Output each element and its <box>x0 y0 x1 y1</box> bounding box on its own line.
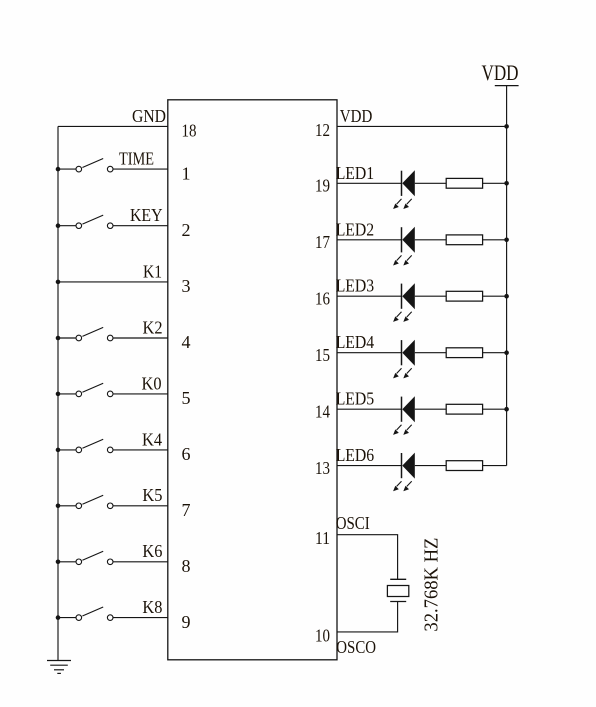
wire: rail to pin 18 (GND) <box>58 125 168 127</box>
svg-text:3: 3 <box>182 276 191 296</box>
switch SK4 blade <box>82 439 103 448</box>
junction dot on left rail <box>56 615 61 620</box>
crystal Y1 body <box>387 586 408 597</box>
switch SK5 contact circle left <box>76 503 82 509</box>
wire: LED D3 to resistor R3 <box>415 295 446 297</box>
junction dot on left rail <box>56 223 61 228</box>
junction dot on left rail <box>56 336 61 341</box>
LED D2 triangle <box>402 227 415 253</box>
LED D1 triangle <box>402 170 415 196</box>
wire: LED D6 to resistor R6 <box>415 465 446 467</box>
switch SK5 blade <box>82 495 103 504</box>
switch SK6 contact circle left <box>76 559 82 565</box>
junction dot on VDD rail <box>504 294 509 299</box>
svg-text:5: 5 <box>182 388 191 408</box>
wire: pin 15 to LED D4 <box>337 352 402 354</box>
svg-text:14: 14 <box>315 402 330 422</box>
switch SK0 blade <box>82 383 103 392</box>
switch SK8 contact circle left <box>76 615 82 621</box>
svg-text:4: 4 <box>182 332 191 352</box>
svg-text:6: 6 <box>182 444 191 464</box>
svg-text:KEY: KEY <box>130 205 163 225</box>
LED D5 triangle <box>402 396 415 422</box>
wire: crystal to pin 10 <box>337 602 398 632</box>
svg-text:VDD: VDD <box>340 106 373 126</box>
svg-text:8: 8 <box>182 556 191 576</box>
svg-text:LED3: LED3 <box>336 276 375 296</box>
svg-text:LED6: LED6 <box>336 445 375 465</box>
svg-text:VDD: VDD <box>482 60 519 85</box>
switch STIME contact circle left <box>76 166 82 172</box>
LED D2 emission arrow 2 <box>407 255 412 260</box>
wire: resistor R5 to VDD rail <box>483 408 507 410</box>
svg-text:OSCI: OSCI <box>336 513 370 533</box>
LED D2 cathode bar <box>401 227 403 252</box>
wire: switch K2 to pin 4 <box>113 337 168 339</box>
svg-text:K4: K4 <box>142 429 162 449</box>
LED D4 triangle <box>402 340 415 366</box>
LED D3 cathode bar <box>401 284 403 309</box>
wire: rail to switch TIME <box>58 168 76 170</box>
svg-text:11: 11 <box>315 528 330 548</box>
svg-text:LED2: LED2 <box>336 219 375 239</box>
svg-text:LED1: LED1 <box>336 163 375 183</box>
svg-text:2: 2 <box>182 220 191 240</box>
svg-text:LED4: LED4 <box>336 332 375 352</box>
crystal Y1 top plate <box>390 578 406 580</box>
junction dot on left rail <box>56 504 61 509</box>
junction dot on VDD rail <box>504 181 509 186</box>
svg-text:17: 17 <box>315 232 330 252</box>
resistor R6 <box>446 461 482 471</box>
LED D4 cathode bar <box>401 340 403 365</box>
LED D6 cathode bar <box>401 453 403 478</box>
wire: switch TIME to pin 1 <box>113 168 168 170</box>
switch STIME contact circle right <box>107 166 113 172</box>
svg-text:9: 9 <box>182 612 191 632</box>
IC U1 body <box>168 100 337 660</box>
LED D3 triangle <box>402 283 415 309</box>
LED D6 emission arrow 2 <box>407 481 412 486</box>
LED D5 cathode bar <box>401 397 403 422</box>
wire: switch K6 to pin 8 <box>113 561 168 563</box>
LED D2 emission arrow 1 <box>397 255 402 260</box>
switch SK0 contact circle left <box>76 391 82 397</box>
ground symbol <box>47 660 71 662</box>
wire: switch K8 to pin 9 <box>113 617 168 619</box>
svg-text:K8: K8 <box>142 597 162 617</box>
resistor R1 <box>446 178 482 188</box>
wire: rail to switch K0 <box>58 393 76 395</box>
LED D1 emission arrow 1 <box>397 199 402 204</box>
switch SKEY contact circle left <box>76 223 82 229</box>
wire: rail to switch K5 <box>58 505 76 507</box>
crystal Y1 bottom plate <box>390 601 406 603</box>
junction dot on VDD rail <box>504 407 509 412</box>
wire: resistor R6 to VDD rail <box>483 465 507 467</box>
LED D6 triangle <box>402 453 415 479</box>
svg-text:15: 15 <box>315 345 330 365</box>
svg-text:18: 18 <box>182 121 197 141</box>
switch SK6 blade <box>82 551 103 560</box>
switch SK0 contact circle right <box>107 391 113 397</box>
LED D4 emission arrow 2 <box>407 368 412 373</box>
junction dot on left rail <box>56 560 61 565</box>
svg-text:16: 16 <box>315 289 330 309</box>
wire: LED D5 to resistor R5 <box>415 408 446 410</box>
wire: switch K4 to pin 6 <box>113 449 168 451</box>
wire: rail to pin 3 (K1) <box>58 281 168 283</box>
switch SK4 contact circle left <box>76 447 82 453</box>
junction dot on left rail <box>56 392 61 397</box>
wire: left common rail <box>57 126 59 660</box>
wire: resistor R3 to VDD rail <box>483 295 507 297</box>
LED D3 emission arrow 2 <box>407 312 412 317</box>
wire: resistor R2 to VDD rail <box>483 239 507 241</box>
wire: pin 14 to LED D5 <box>337 408 402 410</box>
switch SKEY contact circle right <box>107 223 113 229</box>
wire: LED D4 to resistor R4 <box>415 352 446 354</box>
wire: pin 13 to LED D6 <box>337 465 402 467</box>
wire: rail to switch K2 <box>58 337 76 339</box>
wire: pin 12 to VDD rail <box>337 125 507 127</box>
wire: pin 11 to crystal <box>337 535 398 580</box>
resistor R5 <box>446 404 482 414</box>
switch STIME blade <box>82 159 103 168</box>
svg-text:GND: GND <box>132 106 166 126</box>
LED D1 cathode bar <box>401 171 403 196</box>
LED D1 emission arrow 2 <box>407 199 412 204</box>
svg-text:13: 13 <box>315 458 330 478</box>
LED D4 emission arrow 1 <box>397 368 402 373</box>
switch SK8 contact circle right <box>107 615 113 621</box>
resistor R4 <box>446 348 482 358</box>
junction dot on left rail <box>56 280 61 285</box>
switch SK6 contact circle right <box>107 559 113 565</box>
LED D3 emission arrow 1 <box>397 312 402 317</box>
svg-text:12: 12 <box>315 120 330 140</box>
LED D5 emission arrow 2 <box>407 425 412 430</box>
svg-text:7: 7 <box>182 500 191 520</box>
svg-text:K2: K2 <box>143 317 163 337</box>
svg-text:OSCO: OSCO <box>336 637 376 657</box>
svg-text:K5: K5 <box>142 485 162 505</box>
switch SKEY blade <box>82 215 103 224</box>
switch SK2 contact circle left <box>76 335 82 341</box>
LED D6 emission arrow 1 <box>397 481 402 486</box>
junction dot on VDD rail <box>504 350 509 355</box>
wire: resistor R4 to VDD rail <box>483 352 507 354</box>
wire: VDD rail vertical <box>506 86 508 466</box>
wire: pin 19 to LED D1 <box>337 182 402 184</box>
svg-text:19: 19 <box>315 176 330 196</box>
wire: LED D1 to resistor R1 <box>415 182 446 184</box>
svg-text:K1: K1 <box>143 261 162 281</box>
wire: rail to switch K6 <box>58 561 76 563</box>
wire: LED D2 to resistor R2 <box>415 239 446 241</box>
wire: rail to switch KEY <box>58 225 76 227</box>
LED D5 emission arrow 1 <box>397 425 402 430</box>
junction dot on left rail <box>56 167 61 172</box>
wire: pin 17 to LED D2 <box>337 239 402 241</box>
svg-text:K0: K0 <box>142 373 162 393</box>
wire: rail to switch K8 <box>58 617 76 619</box>
switch SK4 contact circle right <box>107 447 113 453</box>
resistor R2 <box>446 235 482 245</box>
resistor R3 <box>446 291 482 301</box>
switch SK8 blade <box>82 607 103 616</box>
svg-text:TIME: TIME <box>119 149 154 169</box>
wire: switch K0 to pin 5 <box>113 393 168 395</box>
svg-text:1: 1 <box>182 163 191 183</box>
switch SK2 blade <box>82 327 103 336</box>
junction dot on left rail <box>56 448 61 453</box>
svg-text:32.768K HZ: 32.768K HZ <box>421 538 443 632</box>
junction dot on VDD rail <box>504 238 509 243</box>
junction dot pin 12 / VDD rail <box>504 124 509 129</box>
svg-text:10: 10 <box>315 625 330 645</box>
wire: switch K5 to pin 7 <box>113 505 168 507</box>
wire: pin 16 to LED D3 <box>337 295 402 297</box>
switch SK5 contact circle right <box>107 503 113 509</box>
wire: switch KEY to pin 2 <box>113 225 168 227</box>
svg-text:LED5: LED5 <box>336 389 375 409</box>
wire: resistor R1 to VDD rail <box>483 182 507 184</box>
switch SK2 contact circle right <box>107 335 113 341</box>
svg-text:K6: K6 <box>142 541 162 561</box>
wire: rail to switch K4 <box>58 449 76 451</box>
